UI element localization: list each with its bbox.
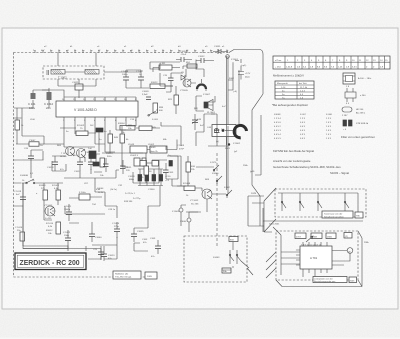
svg-text:2806: 2806	[327, 237, 333, 239]
wire lower-left bus	[14, 183, 118, 251]
svg-text:S 008: S 008	[326, 114, 332, 116]
stamp box2	[145, 272, 157, 279]
wire cluster bus	[126, 62, 180, 88]
svg-text:C103: C103	[150, 238, 156, 240]
svg-text:L 851: L 851	[160, 63, 166, 65]
switch SA1	[282, 197, 286, 211]
wire right border	[252, 94, 263, 226]
svg-text:S1400B: S1400B	[20, 175, 28, 177]
capacitor C1050	[176, 51, 192, 62]
svg-text:903+: 903+	[107, 156, 113, 158]
svg-text:V 1001 A283 D: V 1001 A283 D	[74, 108, 97, 112]
svg-text:22n: 22n	[46, 106, 51, 110]
svg-text:S1400: S1400	[212, 173, 219, 175]
svg-text:2 187: 2 187	[342, 115, 348, 117]
svg-text:1 0 3: 1 0 3	[326, 134, 332, 136]
node X3003	[172, 208, 183, 213]
svg-text:3,5 0: 3,5 0	[352, 67, 358, 69]
mech link dashed	[216, 153, 218, 248]
wire mesh b	[166, 146, 186, 186]
svg-text:4 0 5 5: 4 0 5 5	[274, 138, 281, 140]
svg-text:4 0 5 4: 4 0 5 4	[274, 134, 281, 136]
wire bottom-left mesh	[14, 165, 87, 251]
svg-text:AC 238 [: AC 238 [	[356, 112, 365, 115]
wire motor exits	[266, 227, 281, 278]
transistor VT1002	[190, 189, 212, 206]
diode arrow	[306, 236, 313, 242]
svg-text:2001 2001: 2001 2001	[269, 224, 280, 226]
wire mesh d	[208, 114, 228, 146]
fuse F1005	[79, 192, 90, 200]
wire interconnect to boxes	[248, 115, 264, 226]
svg-text:VT 1003: VT 1003	[44, 205, 53, 207]
wire connector drops	[181, 205, 201, 232]
pin box 2707	[295, 233, 306, 239]
svg-text:C 1020: C 1020	[15, 227, 23, 229]
capacitor C1018	[88, 158, 94, 170]
wire mid-lower bus	[94, 126, 228, 212]
svg-text:7 8 9 10 11 12 13 14: 7 8 9 10 11 12 13 14	[301, 245, 322, 247]
resistor R1010	[46, 222, 61, 235]
svg-text:S1003 – Signal: S1003 – Signal	[330, 171, 349, 175]
resistor R1021	[168, 95, 179, 105]
switch SA2	[300, 197, 304, 211]
resistor R1017	[15, 120, 24, 130]
svg-text:R18 330: R18 330	[124, 201, 133, 203]
svg-text:Natu 2k: Natu 2k	[150, 150, 158, 153]
svg-text:C103: C103	[168, 172, 174, 174]
note lieferzustand	[273, 159, 349, 175]
resistor R1001	[52, 185, 61, 200]
stamp box1	[113, 271, 141, 279]
svg-text:(1k 2u): (1k 2u)	[110, 189, 117, 191]
svg-text:SC 236: SC 236	[191, 204, 199, 206]
trimmer C1049	[192, 114, 202, 130]
svg-text:KW MW Ein Aus Rade Aw Si: KW MW Ein Aus Rade Aw Signal	[273, 149, 314, 153]
svg-text:R 1008: R 1008	[183, 183, 191, 185]
svg-text:C28 1n: C28 1n	[108, 209, 116, 211]
svg-text:R1400: R1400	[39, 185, 46, 187]
IC U V1001 A283D	[56, 101, 138, 117]
svg-text:Gezeichnete Schalterstellung: Gezeichnete Schalterstellung S1001–MW, S…	[273, 165, 341, 169]
svg-text:VT1005: VT1005	[180, 90, 188, 92]
pin box 2806	[326, 233, 336, 239]
wire left edge	[14, 108, 22, 144]
svg-text:2+277p: 2+277p	[133, 198, 141, 200]
svg-text:150p: 150p	[64, 235, 70, 237]
capacitor C1017	[74, 158, 83, 173]
svg-text:680p: 680p	[129, 179, 135, 181]
capacitor C1040	[89, 226, 102, 242]
svg-text:0 0 3: 0 0 3	[300, 122, 306, 124]
stamp box 903	[229, 237, 238, 242]
transistor VT1006	[77, 149, 86, 159]
svg-text:C1050: C1050	[180, 51, 187, 53]
svg-text:R1012: R1012	[46, 230, 53, 232]
symbol legend pill	[342, 107, 365, 117]
svg-text:R 1001: R 1001	[52, 185, 60, 187]
resistor R1008	[183, 183, 195, 197]
wire left dashed border	[13, 53, 15, 278]
KEYBOARD BOX	[264, 188, 366, 232]
svg-text:C1035: C1035	[137, 231, 144, 233]
svg-text:R1004: R1004	[118, 123, 125, 125]
svg-text:Messpunkt: Messpunkt	[277, 82, 288, 85]
switch S1002	[224, 187, 232, 198]
switch position list	[274, 114, 332, 140]
svg-text:(p05: (p05	[250, 171, 255, 173]
svg-text:X 3003: X 3003	[172, 211, 180, 213]
node X3004	[180, 218, 191, 223]
svg-text:T 1002: T 1002	[58, 76, 67, 80]
svg-text:C 1024: C 1024	[112, 223, 120, 225]
wire top-right diagonal border	[229, 50, 263, 95]
transistor VT1005	[180, 79, 191, 92]
symbol legend box1	[343, 73, 372, 84]
svg-text:C1013: C1013	[47, 167, 54, 169]
wire mesh e	[134, 186, 160, 251]
svg-text:11,7 4k: 11,7 4k	[300, 87, 308, 89]
inductor L1031	[130, 152, 146, 166]
svg-text:C1021: C1021	[72, 82, 79, 84]
loudspeaker XL3001	[194, 100, 216, 115]
inductor L1043	[128, 144, 167, 153]
svg-text:(p): (p)	[216, 141, 219, 143]
capacitor C1044	[207, 124, 220, 139]
capacitor C1021	[64, 204, 72, 221]
wire IC pin bus lower	[14, 108, 120, 178]
svg-text:L1002 5: L1002 5	[130, 155, 139, 157]
svg-text:2+22,2u 1: 2+22,2u 1	[125, 193, 136, 195]
wire scatter mesh	[52, 153, 128, 218]
svg-text:1,52,8: 1,52,8	[286, 67, 293, 69]
svg-text:1 0 3: 1 0 3	[326, 122, 332, 124]
node X3001	[226, 55, 239, 61]
capacitor C1037	[131, 228, 144, 243]
trimmer box C1827	[140, 161, 159, 167]
switch S1003	[148, 110, 159, 121]
stamp motor num	[349, 277, 357, 283]
capacitor C1007	[136, 70, 144, 88]
wire mesh a	[133, 153, 167, 183]
capacitor C1016	[88, 148, 96, 156]
IC bottom pin stubs	[64, 117, 136, 122]
svg-text:Meßinstrument ≥ 10kΩ/V: Meßinstrument ≥ 10kΩ/V	[273, 74, 304, 78]
svg-text:Filter von unten gezeichnet: Filter von unten gezeichnet	[341, 135, 375, 139]
bottom mid bus	[23, 245, 117, 260]
capacitor C1052	[196, 56, 214, 63]
wire keyboard front face	[263, 208, 363, 232]
svg-text:(2): (2)	[345, 236, 348, 238]
resistor R1005	[128, 125, 160, 131]
TABLE 2	[275, 81, 314, 100]
capacitor C1021a	[72, 79, 83, 98]
resistor R1022	[150, 82, 173, 89]
wire top dashed border	[14, 52, 230, 54]
resistor R1007	[108, 134, 119, 143]
svg-text:207B: 207B	[251, 193, 257, 195]
capacitor C1015	[163, 73, 174, 86]
wire T1002 feeds	[58, 53, 96, 87]
resistor R1013	[100, 153, 113, 167]
motor M	[347, 248, 353, 254]
motor frame	[276, 231, 358, 280]
transformer T1002	[43, 66, 104, 80]
wire IC top bus	[42, 86, 136, 97]
symbol legend box2	[345, 86, 366, 105]
svg-text:4 0 5 2: 4 0 5 2	[274, 126, 281, 128]
IC top pin stubs	[64, 97, 136, 101]
capacitor C1038	[163, 163, 174, 179]
wire motor wiring	[281, 235, 350, 277]
resistor R1004	[118, 123, 135, 134]
svg-text:100 u: 100 u	[122, 74, 128, 76]
switch S1400	[212, 173, 222, 184]
capacitor C1026	[24, 148, 43, 165]
inductor L1051	[104, 63, 180, 72]
svg-text:S 007: S 007	[300, 114, 306, 116]
transistor VT1001	[60, 147, 75, 159]
svg-text:a 240: a 240	[360, 95, 366, 97]
svg-text:F 100s: F 100s	[79, 192, 87, 194]
svg-text:..22uF: ..22uF	[180, 54, 187, 56]
svg-text:C103: C103	[142, 239, 148, 241]
stamp motor label	[313, 277, 347, 283]
svg-text:S1403: S1403	[213, 257, 220, 259]
svg-text:1-14: 1-14	[281, 87, 286, 89]
svg-text:ZERDICK - RC 200: ZERDICK - RC 200	[20, 260, 80, 267]
switch box S1403	[184, 236, 253, 282]
capacitor C1009	[142, 91, 151, 100]
diode VD1001	[181, 72, 185, 80]
wire mesh c	[161, 114, 215, 186]
svg-text:L100: L100	[30, 119, 36, 121]
capacitor C1046	[103, 158, 109, 172]
svg-text:C1051: C1051	[214, 46, 221, 48]
capacitor C1024	[112, 222, 120, 238]
svg-text:1 2 3: 1 2 3	[300, 118, 306, 120]
switch SA4	[345, 197, 349, 211]
wire upper mid mesh	[160, 73, 183, 114]
svg-text:Schaltseite gesehen: Schaltseite gesehen	[324, 216, 344, 219]
capacitor C1829	[169, 161, 172, 167]
svg-text:4 0 5 6: 4 0 5 6	[274, 122, 281, 124]
capacitor C1019	[14, 190, 26, 206]
svg-text:R 1002: R 1002	[77, 125, 85, 127]
svg-text:a/Turn: a/Turn	[275, 59, 282, 62]
capacitor C1045	[93, 162, 99, 166]
switch S1403b	[237, 250, 241, 264]
wire pin drops	[64, 122, 136, 152]
svg-text:1,2 4: 1,2 4	[300, 91, 306, 93]
switch SA3	[318, 197, 322, 211]
svg-text:3,3nF: 3,3nF	[142, 94, 148, 96]
capacitor C1011	[28, 90, 36, 110]
capacitor bank C1039	[128, 169, 171, 191]
svg-text:0 3 3: 0 3 3	[300, 134, 306, 136]
svg-text:Ansicht von der Lieferzugseite: Ansicht von der Lieferzugseite	[273, 159, 311, 163]
svg-text:1 5 3: 1 5 3	[326, 138, 332, 140]
svg-text:R1022: R1022	[151, 82, 158, 84]
capacitor C1030	[85, 152, 96, 159]
svg-text:47nF: 47nF	[179, 149, 185, 151]
wire top mesh	[183, 56, 227, 190]
IC A791	[300, 246, 332, 269]
svg-text:S1008: S1008	[274, 114, 281, 116]
resistor R1014	[144, 166, 152, 175]
svg-text:S 002: S 002	[224, 187, 230, 189]
svg-text:Halbleiter alle: Halbleiter alle	[115, 273, 129, 276]
switch S1001	[210, 162, 219, 172]
TABLE 1 voltages	[273, 56, 390, 69]
wire bottom dashed border	[14, 276, 159, 278]
svg-text:+12V: +12V	[245, 73, 251, 75]
svg-text:X 3002: X 3002	[233, 143, 241, 145]
resistor R1051	[186, 62, 197, 68]
wire speaker bus	[191, 70, 239, 145]
wire S1403 links	[222, 242, 253, 275]
svg-text:A 791: A 791	[310, 256, 318, 260]
svg-text:S 003: S 003	[152, 119, 158, 121]
battery GB	[238, 65, 251, 80]
svg-text:S1009: S1009	[149, 147, 156, 149]
svg-text:1 0 3: 1 0 3	[326, 126, 332, 128]
pin box 2808	[311, 233, 322, 239]
svg-text:(+4): (+4)	[233, 91, 237, 93]
resistor R1016	[186, 162, 196, 172]
svg-text:C 1019: C 1019	[14, 191, 22, 193]
svg-text:bei Takt: bei Takt	[299, 82, 307, 85]
svg-text:Tastensatz von der: Tastensatz von der	[324, 213, 343, 216]
capacitor C1014	[96, 128, 107, 133]
svg-text:1 0 3: 1 0 3	[326, 130, 332, 132]
svg-text:R 1010: R 1010	[46, 223, 54, 225]
svg-text:C 1022: C 1022	[63, 232, 71, 234]
resistor R1009	[120, 134, 129, 143]
svg-text:C1052: C1052	[198, 56, 205, 58]
wire top border stubs	[35, 50, 227, 53]
svg-text:HF 240: HF 240	[356, 109, 364, 111]
svg-text:0 0 3: 0 0 3	[300, 138, 306, 140]
svg-text:1005: 1005	[147, 276, 153, 278]
svg-text:*Bei aufwengenden Duplistor: *Bei aufwengenden Duplistor	[272, 103, 308, 107]
svg-text:(bat): (bat)	[245, 76, 250, 79]
svg-text:Y1007: Y1007	[29, 140, 36, 142]
resistor R1002	[76, 125, 88, 136]
svg-text:C1040: C1040	[95, 237, 102, 239]
capacitor C1034	[142, 239, 148, 244]
stamp keyboard num	[355, 212, 363, 218]
resistor R1015	[29, 140, 44, 147]
title block ZERDICK RC200	[15, 253, 86, 270]
capacitor C1008	[121, 70, 129, 88]
svg-text:C1039: C1039	[128, 176, 135, 178]
wire main vertical rails	[228, 56, 241, 126]
earphone X3007	[197, 85, 211, 97]
switch S1400B	[20, 175, 38, 184]
capacitor C1012	[44, 88, 53, 110]
transistor VT1003	[44, 205, 55, 220]
svg-text:C1023: C1023	[108, 255, 115, 257]
svg-text:M: M	[349, 252, 351, 254]
svg-text:VT 1002: VT 1002	[190, 200, 199, 202]
wire mid bus	[44, 126, 136, 152]
svg-text:Bestückungsseite ges.: Bestückungsseite ges.	[314, 280, 336, 283]
svg-text:C1009: C1009	[142, 91, 149, 93]
svg-text:S 52%: S 52%	[210, 162, 216, 164]
svg-text:2005: 2005	[350, 281, 356, 283]
wire keyboard top bus	[278, 193, 358, 213]
scatter labels	[30, 106, 238, 211]
wire drops	[110, 126, 122, 153]
svg-text:2707: 2707	[296, 237, 302, 239]
svg-text:0 0 3: 0 0 3	[300, 130, 306, 132]
svg-text:0 0 3: 0 0 3	[300, 126, 306, 128]
pin box 2707b	[344, 233, 352, 239]
keyboard frame	[275, 189, 366, 217]
resistor R998	[153, 103, 164, 113]
capacitor C1033	[150, 238, 161, 258]
jack X3002	[212, 125, 247, 151]
svg-text:STR 4Ω8 4d: STR 4Ω8 4d	[356, 123, 369, 125]
capacitor C1031	[120, 160, 132, 174]
resistor R1400	[39, 185, 48, 200]
capacitor C1013	[47, 156, 58, 171]
stamp box 90b	[222, 268, 231, 273]
MOTOR BOX	[263, 208, 370, 287]
stamp keyboard label	[322, 211, 353, 218]
capacitor C1020	[15, 227, 25, 241]
svg-text:X 3007: X 3007	[203, 94, 211, 96]
svg-text:+ 254: + 254	[275, 67, 281, 69]
svg-text:C 1008: C 1008	[121, 71, 129, 73]
wire left bus	[14, 90, 49, 108]
svg-text:9002: 9002	[229, 78, 235, 80]
svg-text:A 100 ... 180+: A 100 ... 180+	[358, 77, 372, 80]
svg-text:4 0 5 3: 4 0 5 3	[274, 130, 281, 132]
svg-text:TGL-Wert 30 gal.: TGL-Wert 30 gal.	[115, 276, 132, 279]
svg-text:1 2 3 4: 1 2 3 4	[274, 118, 281, 120]
svg-text:(+p1): (+p1)	[241, 65, 246, 67]
svg-text:C1900: C1900	[148, 189, 155, 191]
svg-text:1 2 3: 1 2 3	[326, 118, 332, 120]
svg-text:C 1007: C 1007	[136, 71, 144, 73]
switch S1403a	[230, 250, 234, 264]
capacitor C1022	[63, 230, 71, 246]
symbol legend quartz	[343, 120, 369, 131]
capacitor C1023	[101, 248, 115, 261]
capacitor C1051	[213, 46, 228, 54]
capacitor C1025	[93, 246, 104, 260]
